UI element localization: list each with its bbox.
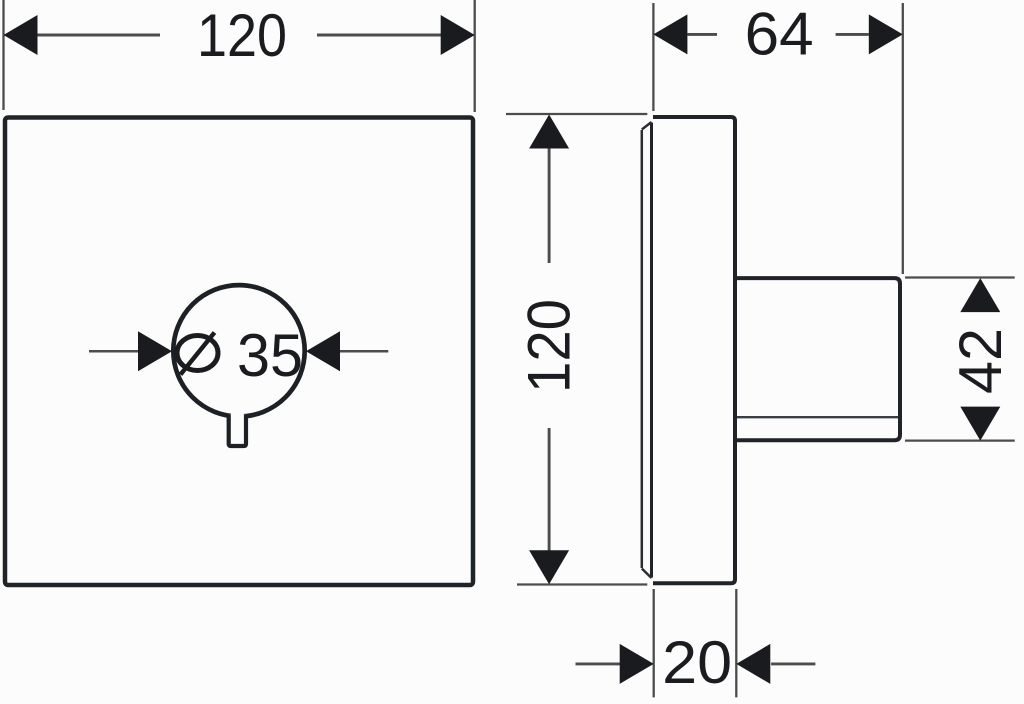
svg-text:120: 120 <box>197 2 287 69</box>
svg-text:42: 42 <box>947 328 1014 394</box>
svg-text:64: 64 <box>745 1 814 68</box>
svg-text:120: 120 <box>515 299 582 393</box>
svg-text:20: 20 <box>662 629 732 696</box>
svg-text:35: 35 <box>237 322 303 389</box>
